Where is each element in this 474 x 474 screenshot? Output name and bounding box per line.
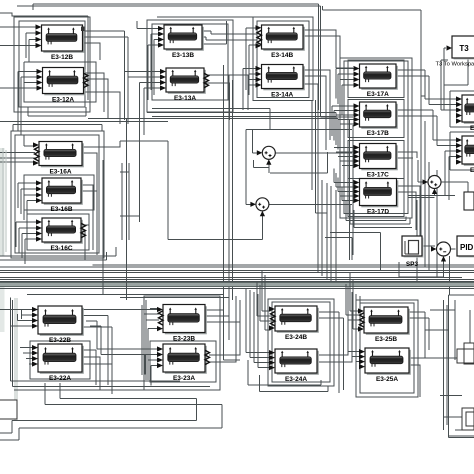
heat exchanger E3-17D (354, 179, 399, 216)
wire feed E3-16A zig2 (0, 157, 35, 159)
wire loop E3-17B (348, 100, 404, 138)
wire feed E3-17A.3 (340, 80, 354, 110)
svg-text:E3-25A: E3-25A (376, 376, 398, 383)
wire feed E3-24B.2 (265, 275, 271, 330)
wire long line y108 (152, 109, 270, 130)
sum junction S4 (431, 242, 451, 262)
wire feed E3-16C.4 (25, 239, 37, 264)
small rect bottom right 3 (462, 408, 474, 430)
wire out E3-13A (204, 75, 248, 120)
small block right of sum3 (464, 192, 474, 210)
wire bus 1 (0, 247, 116, 256)
wire feed E3-23A.1 (142, 349, 158, 369)
wire loop E3-22A box (30, 341, 90, 379)
wire bus 6 (0, 272, 474, 274)
heat exchanger E3-13B (158, 25, 204, 59)
svg-text:E3-17C: E3-17C (367, 172, 389, 179)
wire out E3-17D (397, 186, 420, 240)
wire bus 4 (0, 266, 474, 268)
wire feed E3-23B.1 (150, 308, 158, 310)
wire feed E3-17B.5 (340, 124, 354, 154)
svg-text:E3-25B: E3-25B (375, 336, 397, 343)
wire bottom left corner inner (0, 383, 222, 440)
wire loop E3-25 inner (360, 303, 414, 393)
wire E3-16 loop top extra (13, 125, 102, 132)
small rect bottom right 1 (457, 349, 474, 363)
svg-text:E3-13B: E3-13B (172, 52, 194, 59)
wire feed E3-12B.3 (29, 40, 36, 63)
heat exchanger E3-14A (256, 65, 305, 99)
wire feed E3-14B zig (206, 34, 258, 40)
block SP3 constant (402, 236, 424, 268)
wire feed E3-13B.2 (151, 34, 158, 90)
wire feed E3-25A.4 (359, 296, 362, 367)
wire long line y112 (147, 113, 336, 120)
wire top bus d (323, 6, 422, 10)
wire vert x417 (416, 200, 418, 283)
wire feed E3-13B.3 (154, 40, 158, 96)
svg-text:E3-24B: E3-24B (285, 334, 307, 341)
wire feed E3-17C.5 (342, 165, 354, 167)
heat exchanger E3-22A (32, 344, 84, 382)
wire top bus b (0, 13, 88, 100)
wire feed E3-22B.2 (22, 310, 33, 320)
wire out E3-16A (82, 141, 120, 240)
wire out E3-23B (205, 310, 240, 330)
svg-text:E3-18B: E3-18B (470, 125, 474, 132)
wire mid vert x315 (312, 100, 327, 213)
wire loop Eblock2 (450, 132, 474, 170)
wire bus 3 (93, 264, 474, 266)
wire loop E3-22 bottoms (11, 381, 211, 390)
wire bus 10 (0, 287, 474, 289)
wire out E3-12A (84, 73, 121, 124)
arrow into T3 (447, 45, 453, 50)
wire feed E3-17A.1 (336, 69, 354, 99)
wire out E3-17B (396, 110, 456, 140)
wire cross pair 22-23 a (86, 321, 158, 349)
wire mid vert x246 (246, 130, 352, 205)
wire out E3-12B (83, 31, 129, 77)
wire feed E3-22B.4 (10, 325, 33, 327)
heat exchanger E3-22B (32, 306, 84, 344)
wire loop E3-24 outer (268, 299, 334, 386)
wire loop E3-12A (24, 62, 96, 102)
heat exchanger E3-18A (456, 136, 474, 174)
wire sum1 out (275, 152, 352, 154)
wire out E3-17A (396, 70, 456, 99)
svg-text:E3-13A: E3-13A (174, 95, 196, 102)
wire feed E3-16B.1 (18, 183, 37, 208)
wire bottom left corner outer (0, 383, 197, 433)
wire feed E3-17A.2 (338, 74, 354, 104)
wire feed E3-23A.4 (151, 366, 158, 386)
wire feed E3-22A.1 (20, 347, 33, 349)
svg-text:E3-12A: E3-12A (52, 97, 74, 104)
svg-text:PID: PID (460, 243, 474, 252)
sum junction S3 (423, 176, 442, 195)
wire loop E3-25 outer (356, 300, 418, 397)
wire mid vert x168 (120, 119, 168, 240)
wire loop E3-17 outer (340, 58, 412, 218)
wire feed E3-16B.3 (24, 195, 37, 220)
wire feed E3-14A.1 (243, 69, 256, 111)
wire mid verticals x223 (223, 65, 240, 360)
wire sum4 bottom (399, 258, 444, 277)
block PID controller (457, 236, 474, 258)
wire feed E3-17B.2 (334, 111, 354, 141)
svg-text:E3-18A: E3-18A (470, 167, 474, 174)
wire h232 to bus (330, 232, 381, 271)
heat exchanger E3-17C (354, 144, 398, 179)
wire SP3 out (422, 245, 435, 247)
wire feed Eblock2 (445, 151, 456, 200)
sum junction S1 (257, 146, 276, 165)
wire pale pair left (15, 298, 17, 420)
wire feed E3-25A.3 (356, 294, 360, 362)
heat exchanger E3-16B (36, 178, 83, 213)
wire feed E3-13A.1 (125, 72, 161, 121)
wire feed E3-24A.1 (246, 288, 271, 353)
wire feed E3-17D.5 (342, 187, 354, 201)
wire feed E3-24A.2 (250, 290, 271, 358)
wire feed E3-13A.2 (128, 77, 160, 124)
wire feed E3-17D.4 (340, 182, 354, 196)
svg-text:T3: T3 (459, 44, 469, 53)
wire feed E3-24A.4 (258, 294, 271, 368)
wire out E3-17A b (396, 76, 456, 105)
wire mid vert x349 (350, 120, 353, 260)
wire T3 loop (444, 59, 468, 85)
wire feed E3-25B.1 (350, 272, 359, 311)
wire bus band bottom edge (0, 286, 474, 288)
wire feed E3-17C.3 (338, 156, 354, 158)
wire feed E3-12B.1 (0, 26, 36, 28)
wire feed E3-24B zig (257, 282, 272, 321)
wire loop E3-14 inner (257, 21, 309, 98)
wire feed E3-25A.1 (348, 290, 360, 352)
svg-text:E3-22B: E3-22B (49, 337, 71, 344)
heat exchanger E3-14B (256, 25, 305, 59)
svg-text:T3 To Workspace: T3 To Workspace (436, 62, 474, 68)
wire feed E3-23B.2 (148, 329, 158, 380)
wire loops below 17D c (354, 210, 412, 228)
heat exchanger E3-25B (358, 307, 410, 343)
wire feed E3-17D.1 (334, 169, 354, 183)
wire feed E3-14A.2 (249, 62, 256, 92)
svg-text:E3-12B: E3-12B (51, 54, 73, 61)
wire feed E3-25B zig (346, 284, 360, 320)
wire loop E3-17C (348, 141, 404, 179)
wire right col verticals to bus (421, 96, 437, 277)
wire loop E3-23A box (150, 341, 216, 382)
svg-text:E3-17D: E3-17D (367, 209, 389, 216)
wire feed E3-22A.4 (29, 363, 33, 365)
wire feed E3-13A.3 (140, 83, 161, 142)
heat exchanger E3-12B (36, 24, 85, 61)
wire out E3-25A (409, 358, 457, 397)
wire loop E3-12 outer (14, 17, 90, 112)
svg-text:E3-17B: E3-17B (367, 130, 389, 137)
wire bus 11 (27, 294, 223, 296)
wire feed E3-17C.2 (336, 151, 354, 153)
wire feed E3-12B.2 (26, 33, 36, 58)
wire feed E3-17B.1 (332, 106, 354, 136)
left edge small rect (0, 400, 17, 419)
wire sum1 feedback (254, 152, 328, 173)
wire sum3 in (418, 160, 426, 182)
wire feed E3-17C.1 (334, 147, 354, 149)
wire out E3-22A (82, 350, 112, 394)
wire mid h237 (325, 238, 352, 261)
wire feed E3-17B.4 (338, 120, 354, 150)
wire loop E3-16B box (24, 175, 94, 210)
wire loop E3-24 below (248, 360, 328, 392)
wire loop E3-22 left (11, 298, 13, 387)
wire feed E3-17D.2 (336, 173, 354, 187)
wire sum2 out (269, 203, 352, 205)
heat exchanger E3-13A (160, 68, 209, 102)
wire feed E3-14A.3 (249, 79, 256, 81)
wire bottom right verts (444, 300, 471, 430)
wire feed E3-14A.4 (249, 84, 256, 86)
wire out E3-24B (319, 312, 344, 393)
wire bottom right horizontals (425, 310, 474, 436)
wire bottom right big rect (449, 295, 474, 438)
wire sum3 out (441, 182, 468, 192)
small rect bottom right 4 (466, 412, 474, 426)
wire feed E3-16C.3 (22, 234, 37, 259)
wire feed E3-17D.3 (338, 178, 354, 192)
svg-text:E3-24A: E3-24A (285, 376, 307, 383)
heat exchanger E3-18B (456, 95, 474, 132)
svg-text:E3-16C: E3-16C (50, 245, 72, 252)
wire feed E3-23A.2 (145, 355, 158, 375)
wire loops below 17D a (346, 200, 406, 221)
heat exchanger E3-16A (33, 142, 84, 176)
wire loop Eblock1 (450, 91, 474, 127)
heat exchanger E3-25A (359, 348, 411, 383)
svg-text:E3-17A: E3-17A (367, 91, 389, 98)
wire vert x449 PID down (449, 256, 451, 295)
heat exchanger E3-23A (157, 344, 210, 382)
wire out E3-24A (319, 300, 352, 362)
wire feed E3-13B.4 (148, 45, 158, 100)
wire feed E3-14B.2 (249, 45, 256, 95)
wire feed E3-17B.3 (336, 115, 354, 145)
wire E3-12 extra loop bottom (28, 107, 86, 116)
wire feed E3-23A.3 (148, 360, 158, 380)
wire feed E3-12B.4 (0, 45, 36, 47)
wire feed Eblock1 (441, 60, 456, 110)
wire loop E3-16C box (27, 214, 89, 250)
wire out E3-17B b (396, 116, 456, 146)
svg-text:E3-14A: E3-14A (271, 92, 293, 99)
wire loops below 17D b (350, 205, 410, 224)
svg-text:E3-14B: E3-14B (271, 52, 293, 59)
wire to T3 (444, 48, 446, 110)
pale band left lower (0, 282, 5, 332)
wire feed E3-22A.3 (26, 358, 33, 360)
wire loop E3-16 outer (11, 131, 104, 258)
svg-text:E3-22A: E3-22A (49, 375, 71, 382)
wire loop E3-24 inner (272, 302, 330, 382)
wire feed E3-16A zig1 (0, 152, 35, 154)
svg-text:E3-16A: E3-16A (49, 169, 71, 176)
wire loop E3-13 outer (147, 20, 233, 112)
wire bus 7 (0, 277, 462, 279)
wire feed E3-23B zig (144, 314, 159, 375)
wire feed E3-22B.1 (0, 309, 33, 311)
wire out E3-13B (202, 21, 227, 44)
wire feed E3-16C.1 (16, 222, 37, 247)
wire loop E3-13 inner (152, 24, 228, 100)
wire feed E3-16A.2 (0, 161, 33, 163)
wire sum4 out (451, 248, 456, 250)
wire bus cross verts (103, 119, 126, 300)
wire feed E3-22A.2 (23, 352, 33, 354)
heat exchanger E3-24B (269, 306, 319, 341)
sum junction S2 (250, 198, 269, 217)
svg-text:E3-16B: E3-16B (50, 206, 72, 213)
wire loop E3-17A (348, 60, 404, 98)
wire right col vert (421, 10, 425, 96)
wire top bus a2 (33, 4, 319, 110)
wire top bus c (157, 16, 253, 18)
wire sum3 bottom (408, 191, 455, 198)
wire feed E3-13A.4 (144, 88, 160, 135)
wire top bus a (17, 6, 353, 117)
heat exchanger E3-12A (37, 68, 89, 104)
heat exchanger E3-16C (36, 218, 86, 252)
wire loop E3-17 inner (344, 61, 408, 214)
block T3 to workspace (436, 36, 474, 68)
wire out E3-16C (81, 225, 89, 260)
heat exchanger E3-17A (354, 64, 398, 98)
heat exchanger E3-17B (354, 102, 398, 137)
bus grey band (0, 283, 474, 287)
wire long line y116b (88, 119, 338, 126)
wire feed E3-24A.3 (254, 292, 271, 363)
wire out E3-16B (81, 185, 97, 255)
wire loop E3-14 outer (253, 17, 313, 101)
wire sum1 in (253, 130, 261, 153)
wire feed E3-16C.2 (19, 228, 37, 253)
wire feed E3-25B.2 (353, 280, 359, 329)
wire feed E3-12A.1 (18, 72, 37, 132)
wire feed E3-16A.1 (24, 135, 33, 146)
wire feed E3-17A.4 (342, 85, 354, 115)
wire out E3-22B (82, 310, 157, 391)
wire feed E3-16B.2 (21, 189, 37, 214)
wire loop E3-23 outer (144, 296, 220, 390)
wire out E3-23A (209, 296, 240, 362)
wire sum2 bottom (168, 213, 262, 240)
wire feed E3-12A.2 (21, 77, 37, 135)
wire bus band top edge (0, 282, 474, 284)
wire bus 8 (0, 279, 474, 281)
wire loop E3-16 inner (15, 135, 99, 253)
wire feed E3-14B.1 (246, 28, 256, 90)
wire feed E3-17C.4 (340, 160, 354, 162)
wire feed E3-25A.2 (352, 292, 360, 357)
wire cross pair 22-23 b (90, 326, 158, 355)
wire bus 2 (0, 252, 106, 260)
small rect bottom right 2 (464, 343, 474, 364)
wire mid verticals 22-23 (142, 300, 146, 380)
wire pale vertical pair (3, 148, 6, 256)
wire feed E3-24B.1 (262, 270, 271, 311)
svg-text:E3-23A: E3-23A (173, 375, 195, 382)
wire loop E3-12 inner (19, 21, 85, 107)
wire mid loops 17CD left (318, 178, 336, 286)
wire out E3-14A (303, 70, 330, 180)
wire bus 5 (0, 270, 474, 272)
svg-text:SP3: SP3 (406, 261, 419, 268)
heat exchanger E3-24A (269, 349, 319, 383)
heat exchanger E3-23B (157, 305, 207, 343)
wire feed E3-22B.3 (18, 314, 33, 321)
svg-text:E3-23B: E3-23B (173, 336, 195, 343)
wire feed E3-12A.4 (0, 87, 37, 89)
wire feed E3-12A.3 (24, 82, 37, 84)
wire feed E3-13B.1 (137, 21, 158, 29)
wire feed E3-16B.4 (27, 201, 37, 226)
pale band left mid (0, 148, 5, 256)
wire long line y121 (0, 120, 168, 122)
wire loop E3-17D (348, 179, 404, 217)
wire out E3-14B (303, 30, 353, 74)
wire bus 12 (120, 297, 229, 299)
wire long line y116 (152, 116, 336, 122)
wire out E3-25B (408, 312, 429, 358)
wire bus 9 (0, 281, 474, 283)
wire out E3-17C (396, 152, 417, 158)
